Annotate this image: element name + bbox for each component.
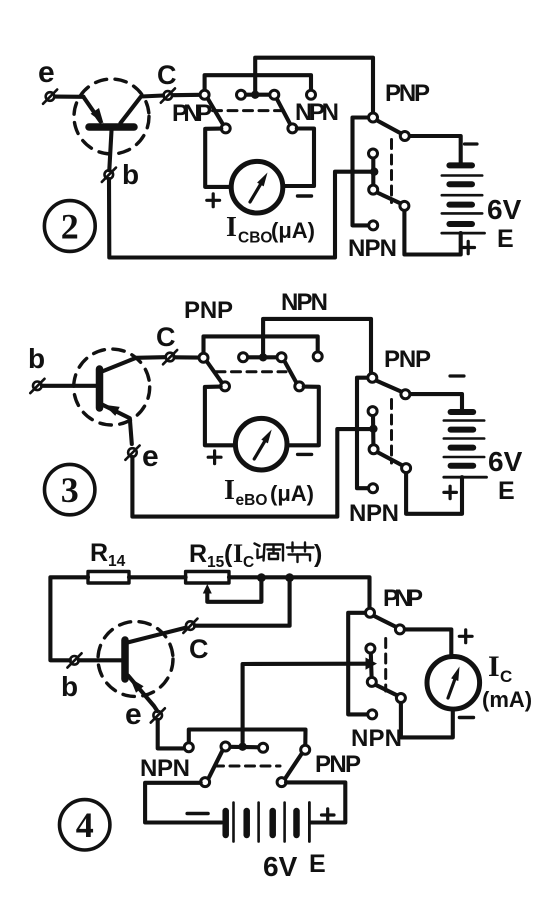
switch S3a arm PNP [207, 361, 223, 384]
switch S2b contact L [400, 201, 409, 210]
junction dot (wiper) [257, 573, 266, 582]
svg-text:PNP: PNP [184, 297, 233, 324]
switch S3b contact H3 [401, 390, 410, 399]
switch S4b jog and bypass wire [348, 613, 368, 715]
wire B4 to battery minus [145, 783, 221, 823]
wire b terminal to base [79, 658, 122, 662]
transistor Q3 dashed envelope [74, 349, 150, 425]
svg-text:NPN: NPN [351, 725, 402, 752]
svg-text:(: ( [224, 540, 233, 568]
svg-text:PNP: PNP [385, 80, 430, 107]
switch S3a contact E3 [295, 382, 304, 391]
battery E2 plus sign [462, 241, 475, 253]
switch S4a arm NPN [208, 750, 223, 780]
svg-text:R: R [189, 540, 207, 568]
svg-text:): ) [314, 540, 322, 568]
label ICBO(uA) [226, 212, 315, 247]
svg-text:4: 4 [76, 805, 94, 845]
switch S2b contact H [400, 132, 409, 141]
svg-text:R: R [90, 539, 108, 567]
svg-text:NPN: NPN [295, 99, 339, 126]
label tiao (Chinese) [255, 544, 284, 561]
meter M3 minus [298, 453, 312, 456]
switch S2a centre link bar [244, 93, 271, 97]
svg-text:CBO: CBO [238, 230, 272, 247]
svg-text:C: C [157, 60, 177, 90]
meter M3 plus [208, 451, 221, 464]
circled number 4 [59, 800, 109, 850]
switch S4b contact L4 [396, 694, 405, 703]
svg-text:PNP: PNP [172, 100, 212, 127]
svg-text:PNP: PNP [383, 585, 423, 612]
svg-text:E: E [309, 850, 326, 878]
wire base to b terminal [109, 131, 111, 171]
wire collector feed down to C terminal [195, 578, 290, 626]
transistor Q2 base bar [89, 123, 134, 131]
switch S2b arm NPN [377, 192, 401, 203]
terminal b (Q4) [67, 653, 81, 667]
svg-text:(μA): (μA) [270, 481, 314, 506]
switch S4b centre link [369, 653, 374, 678]
switch S4b dashed link [384, 639, 387, 692]
wire R14 to R15 [129, 575, 186, 579]
switch S3b contact I3 [368, 407, 377, 416]
svg-text:C: C [500, 667, 512, 686]
switch S2b junction dot [370, 168, 378, 176]
resistor R15 (potentiometer) [186, 572, 229, 584]
switch S2b dashed link [390, 140, 393, 203]
circled number 3 [44, 464, 94, 514]
svg-text:(μA): (μA) [271, 218, 315, 243]
transistor Q3 base bar [96, 369, 104, 408]
wire b down and to right switch dot [109, 172, 371, 258]
switch S3b dashed link [390, 400, 393, 464]
switch S3b junction dot [369, 425, 377, 433]
svg-text:E: E [497, 225, 514, 253]
meter M2 plus [207, 194, 220, 207]
switch S2a arm NPN [277, 98, 291, 125]
switch S4b contact I4b [367, 677, 376, 686]
switch S2a contact B [221, 124, 230, 133]
wire C to switch [173, 93, 201, 97]
label jie (Chinese) [287, 543, 314, 563]
svg-text:e: e [125, 698, 142, 731]
switch S3b wire to battery top [410, 394, 462, 410]
svg-text:b: b [122, 159, 139, 190]
switch S4a junction dot [238, 743, 246, 751]
switch S4b contact I4 [366, 644, 375, 653]
switch S2b jog and bypass wire [353, 118, 369, 226]
switch S3b contact I3b [369, 445, 378, 454]
switch S3a contact A3 [199, 353, 208, 362]
switch S3a arm NPN [284, 361, 297, 384]
switch S2b contact common-top G [369, 113, 378, 122]
switch S3b jog and bypass wire [357, 378, 369, 489]
terminal e (Q3) [125, 446, 139, 460]
switch S4a contact C4 [259, 743, 268, 752]
label R15(IC tiaojie) [189, 539, 322, 571]
transistor Q4 dashed envelope [98, 622, 173, 697]
battery E4 minus sign [187, 812, 208, 816]
wire E to meter right [283, 129, 315, 187]
switch S2a junction dot [251, 91, 259, 99]
svg-text:6V: 6V [263, 851, 298, 882]
feed arrow into S4b centre [366, 658, 378, 670]
wire C to switch (S3a) [175, 355, 200, 359]
battery E3 plus sign [444, 486, 457, 498]
wiper arrow of R15 [203, 584, 212, 594]
svg-text:15: 15 [207, 554, 225, 571]
meter M4 minus [459, 716, 473, 719]
battery E3 minus sign [450, 374, 464, 377]
svg-text:I: I [233, 539, 243, 568]
terminal C [161, 88, 175, 102]
svg-text:NPN: NPN [349, 500, 399, 527]
svg-text:2: 2 [61, 207, 79, 247]
switch S3b contact L3 [402, 464, 411, 473]
battery E4 plus sign [322, 809, 335, 821]
meter M2 minus [298, 194, 312, 197]
switch S3a contact D3 [277, 353, 286, 362]
switch S2a wire top-bar from A to F [205, 75, 311, 90]
switch S2b arm PNP [376, 120, 401, 134]
switch S3b arm NPN [377, 452, 403, 466]
switch S4b contact H4 [395, 625, 404, 634]
battery E2 plates [449, 165, 472, 224]
svg-text:C: C [189, 634, 209, 664]
switch S4a contact D4 [221, 742, 230, 751]
wire E4 to battery plus [286, 782, 345, 822]
svg-text:6V: 6V [487, 194, 522, 225]
svg-text:e: e [142, 440, 159, 473]
battery E4 plates [226, 811, 297, 835]
svg-text:PNP: PNP [315, 751, 361, 778]
transistor Q3 emitter arrow [104, 405, 120, 416]
svg-text:C: C [156, 322, 176, 352]
switch S4a contact B4 [201, 778, 210, 787]
svg-text:3: 3 [61, 470, 79, 510]
switch S2a contact A [200, 90, 209, 99]
switch S4a top-bar wire F4 to A4 [189, 730, 306, 746]
switch S3a top-bar wire A3 to F3 [204, 336, 318, 353]
wire B to meter left [205, 129, 231, 187]
switch S4a contact F4 [184, 743, 193, 752]
svg-text:b: b [28, 343, 45, 374]
switch S4b contact K4 [368, 710, 377, 719]
terminal C (Q4) [183, 619, 197, 633]
switch S4a contact E4 [277, 778, 286, 787]
switch S2a contact C [237, 90, 246, 99]
svg-text:I: I [226, 212, 237, 243]
switch S2a dashed link [213, 109, 285, 112]
transistor Q2 dashed envelope [74, 79, 149, 154]
wiper wire [207, 578, 261, 602]
switch S4b wire to meter plus [404, 629, 451, 656]
terminal b [102, 168, 116, 182]
switch S3b contact common G3 [368, 373, 377, 382]
svg-text:I: I [488, 650, 500, 683]
switch S4b contact common G4 [366, 608, 375, 617]
wire left from R14 down to b [50, 577, 88, 660]
switch S3a dashed link [216, 370, 286, 373]
switch S4a centre link bar [228, 745, 260, 750]
switch S2b contact I2 [369, 185, 378, 194]
transistor Q2 emitter arrow [91, 108, 104, 124]
switch S4b arm PNP [373, 616, 396, 628]
battery E3 plates [451, 412, 474, 466]
switch S4a centre riser to right switch [243, 664, 366, 743]
svg-text:NPN: NPN [281, 289, 328, 316]
switch S2b wire to battery top [409, 136, 461, 164]
transistor Q4 base bar [121, 640, 129, 679]
switch S3a contact F3 [313, 352, 322, 361]
transistor Q3 emitter lead [102, 405, 132, 445]
meter M4 plus [459, 630, 472, 643]
switch S3b contact K3 [369, 484, 378, 493]
wire b to base [42, 384, 96, 388]
switch S4a arm PNP [285, 753, 302, 779]
switch S3a contact C3 [239, 353, 248, 362]
meter M3 [235, 418, 287, 470]
switch S2b contact K [369, 221, 378, 230]
switch S4a contact A4 [301, 745, 310, 754]
circled number 2 [44, 201, 95, 252]
terminal b (Q3) [30, 379, 44, 393]
switch S3b wire to battery bottom [406, 473, 462, 514]
switch S2b centre link [371, 158, 375, 187]
transistor Q3 collector lead [102, 357, 165, 371]
meter M2 [231, 161, 283, 213]
switch S2b contact I [369, 149, 378, 158]
transistor Q4 emitter lead [128, 676, 157, 712]
transistor Q2 emitter lead [83, 97, 100, 122]
switch S3a contact B3 [221, 382, 230, 391]
terminal e (Q4) [151, 708, 165, 722]
switch S4b arm NPN [375, 685, 397, 696]
switch S4a dashed link [215, 765, 281, 768]
terminal C (Q3) [163, 350, 177, 364]
resistor R14 [88, 572, 129, 584]
switch S3b centre link [371, 415, 375, 445]
switch S2a wire from centre dot up to right [255, 58, 373, 113]
transistor Q4 collector lead [128, 628, 187, 643]
svg-text:6V: 6V [488, 446, 523, 477]
switch S3b arm PNP [376, 380, 402, 391]
svg-text:b: b [61, 671, 78, 702]
svg-text:C: C [243, 554, 254, 571]
label IC (meter M4) [488, 650, 512, 686]
wire e to transistor [55, 95, 83, 99]
label R14 [90, 539, 126, 570]
meter M4 [427, 657, 480, 710]
switch S3a junction dot [259, 353, 267, 361]
svg-text:e: e [38, 56, 55, 89]
wire R15 to right riser [229, 577, 370, 608]
label IeBO(uA) [224, 475, 314, 509]
svg-text:PNP: PNP [384, 346, 431, 373]
switch S2a contact E [288, 124, 297, 133]
wire e down to bottom and to right switch dot [132, 429, 370, 516]
svg-text:E: E [498, 477, 515, 505]
wire B3 to meter left [205, 387, 236, 446]
switch S4b wire meter minus loop [401, 703, 453, 738]
switch S2a contact F [307, 90, 316, 99]
battery E2 minus sign [465, 142, 478, 145]
wire E3 to meter right [287, 387, 319, 446]
switch S3a wire centre dot up right (NPN feed) [263, 319, 371, 373]
svg-text:(mA): (mA) [482, 687, 532, 712]
switch S2b wire to battery bottom [404, 210, 460, 254]
terminal e [43, 90, 57, 104]
switch S3a centre link bar [247, 355, 279, 359]
junction dot (collector feed) [285, 573, 294, 582]
svg-text:14: 14 [108, 553, 126, 570]
svg-text:NPN: NPN [140, 755, 190, 782]
transistor Q4 emitter arrow [130, 678, 144, 693]
svg-text:NPN: NPN [348, 235, 397, 262]
transistor Q2 collector lead [121, 96, 164, 124]
svg-text:I: I [224, 475, 235, 506]
wire e to switch S4a [158, 720, 185, 749]
svg-text:eBO: eBO [236, 492, 268, 509]
switch S2a arm PNP [208, 98, 224, 125]
switch S2a contact D [270, 90, 279, 99]
